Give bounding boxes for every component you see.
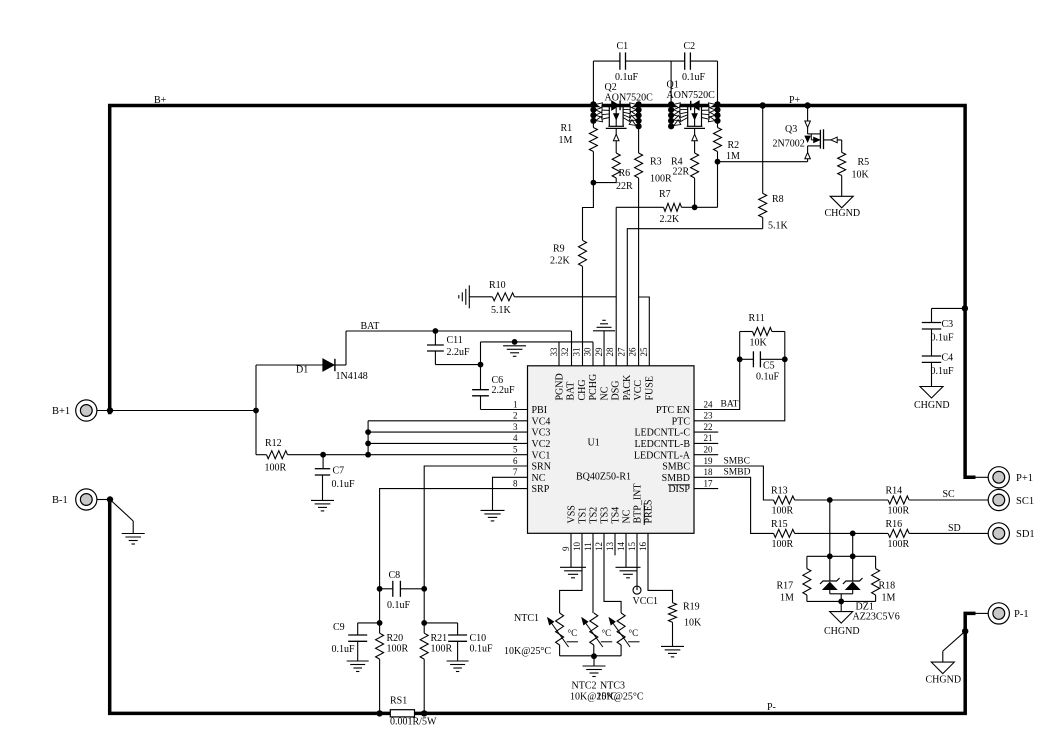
svg-text:°C: °C <box>629 628 639 638</box>
capacitor C8 0.1uF <box>379 581 381 589</box>
svg-text:C10: C10 <box>470 633 487 644</box>
transistor Q2 AON7520C <box>590 101 596 107</box>
capacitor C10 0.1uF <box>424 622 457 624</box>
svg-text:CHG: CHG <box>577 379 588 400</box>
svg-text:TS1: TS1 <box>577 507 588 524</box>
power VCC1 <box>636 533 638 590</box>
svg-text:PRES: PRES <box>643 500 654 524</box>
svg-text:28: 28 <box>605 347 615 357</box>
capacitor C3 <box>922 322 941 324</box>
svg-text:23: 23 <box>704 411 714 421</box>
node C10 tap <box>421 620 427 626</box>
wire pin30 stub <box>592 342 594 366</box>
terminal SD1 <box>988 523 1009 544</box>
svg-text:R13: R13 <box>771 486 788 497</box>
svg-text:5: 5 <box>513 445 518 455</box>
resistor R21 100R <box>420 633 428 659</box>
svg-text:°C: °C <box>568 628 578 638</box>
svg-text:SRP: SRP <box>532 484 550 495</box>
node R4/R7 junction <box>692 204 698 210</box>
svg-text:R1: R1 <box>561 123 573 134</box>
ground at pin14 <box>625 533 627 567</box>
svg-text:R11: R11 <box>749 313 765 324</box>
svg-text:AZ23C5V6: AZ23C5V6 <box>853 612 900 623</box>
svg-text:VCC1: VCC1 <box>633 596 659 607</box>
capacitor C2 <box>684 52 686 69</box>
svg-text:TS3: TS3 <box>599 507 610 524</box>
svg-text:100R: 100R <box>265 463 287 474</box>
resistor R5 10K <box>841 140 843 153</box>
terminal P-1 <box>988 603 1009 624</box>
resistor R15 100R <box>774 529 795 537</box>
svg-text:SMBC: SMBC <box>724 457 750 467</box>
wire R2 down to R7 <box>717 162 719 208</box>
wire pin23 PTC <box>694 359 785 421</box>
svg-text:0.1uF: 0.1uF <box>756 372 780 383</box>
ground at R19 <box>661 645 684 647</box>
resistor R6 22R <box>612 153 620 178</box>
wire SD down to zener <box>852 533 854 556</box>
svg-text:R7: R7 <box>659 189 671 200</box>
node C8 right <box>421 586 427 592</box>
svg-text:10K: 10K <box>684 618 702 629</box>
svg-text:C9: C9 <box>333 622 345 633</box>
svg-text:AON7520C: AON7520C <box>605 93 654 104</box>
wire pin10 TS1 to NTC1 <box>560 533 582 613</box>
resistor RS1 0.001R/5W shunt <box>390 710 414 717</box>
resistor R18 1M <box>875 556 877 568</box>
node SC junction <box>827 497 833 503</box>
resistor R9 2.2K <box>579 240 587 266</box>
svg-text:BAT: BAT <box>361 321 380 332</box>
node RS1 right <box>421 710 427 716</box>
diode D1 1N4148 <box>256 364 323 366</box>
svg-text:VC4: VC4 <box>532 416 551 427</box>
ground at C7 <box>311 499 334 501</box>
svg-text:C4: C4 <box>942 353 954 364</box>
capacitor C11 2.2uF <box>434 331 436 345</box>
svg-text:C2: C2 <box>684 41 696 52</box>
svg-text:1N4148: 1N4148 <box>336 371 368 382</box>
svg-text:Q2: Q2 <box>605 82 617 93</box>
svg-text:12: 12 <box>594 542 604 551</box>
svg-text:29: 29 <box>594 347 604 357</box>
svg-text:DSG: DSG <box>611 380 622 400</box>
svg-text:6: 6 <box>513 456 518 466</box>
node SD junction <box>850 531 856 537</box>
svg-text:VSS: VSS <box>566 505 577 523</box>
overline on PRES pin16 <box>643 503 645 525</box>
svg-text:P+1: P+1 <box>1016 473 1033 484</box>
resistor R13 100R <box>774 496 795 504</box>
svg-text:2N7002: 2N7002 <box>773 139 805 150</box>
svg-text:26: 26 <box>628 347 638 357</box>
svg-text:P+: P+ <box>789 95 801 106</box>
wire R2 to Q3 source <box>718 161 808 163</box>
wire B+1 to D1/R12 <box>253 408 259 414</box>
svg-text:8: 8 <box>513 478 518 488</box>
diode DZ1 zener A <box>829 556 831 581</box>
svg-text:13: 13 <box>605 542 615 552</box>
wire pin33 stub <box>558 342 560 366</box>
svg-text:20: 20 <box>704 445 714 455</box>
node B- bus junction <box>107 496 113 502</box>
ground CHGND at R5 <box>830 196 853 208</box>
svg-text:FUSE: FUSE <box>644 376 655 400</box>
node NTC common <box>591 653 597 659</box>
node zener common <box>838 599 844 605</box>
svg-text:U1: U1 <box>588 438 600 449</box>
svg-text:B+: B+ <box>154 95 167 106</box>
svg-text:0.001R/5W: 0.001R/5W <box>390 717 437 728</box>
svg-text:BTP_INT: BTP_INT <box>632 484 643 524</box>
wire SMBC pin19 <box>694 466 774 500</box>
svg-text:CHGND: CHGND <box>926 675 962 686</box>
wire pin12 TS3 to NTC3 <box>604 533 621 613</box>
wire zener bottom rail <box>807 600 876 602</box>
svg-text:R10: R10 <box>489 280 506 291</box>
resistor R3 100R <box>638 126 640 153</box>
resistor R10 5.1K <box>468 285 470 308</box>
resistor R11 10K <box>739 332 741 360</box>
node RS1 left <box>376 710 382 716</box>
svg-text:BAT: BAT <box>721 400 739 410</box>
transistor Q3 2N7002 <box>807 108 809 134</box>
wire C2 right drop <box>690 60 717 62</box>
terminal B-1 <box>76 489 97 510</box>
svg-text:R21: R21 <box>431 633 448 644</box>
node R2 bottom <box>715 159 721 165</box>
svg-text:22R: 22R <box>616 181 633 192</box>
resistor R20 100R <box>376 633 384 659</box>
wire down left <box>379 589 381 633</box>
terminal P+1 <box>988 467 1009 488</box>
svg-text:°C: °C <box>602 628 612 638</box>
svg-text:AON7520C: AON7520C <box>667 90 716 101</box>
wire NC pin7 to ground <box>493 477 528 510</box>
wire zener top rail <box>807 555 876 557</box>
wire B+ left vertical (thick) <box>108 104 112 414</box>
svg-text:100R: 100R <box>772 539 794 550</box>
svg-text:LEDCNTL-A: LEDCNTL-A <box>634 450 691 461</box>
svg-text:16: 16 <box>638 542 648 552</box>
svg-text:11: 11 <box>583 542 593 551</box>
svg-text:SD: SD <box>948 523 961 534</box>
svg-text:4: 4 <box>513 433 518 443</box>
wire SC down to zener <box>829 500 831 556</box>
svg-text:10K: 10K <box>750 338 768 349</box>
wire junction to R9 <box>583 183 594 241</box>
svg-text:R16: R16 <box>886 519 903 530</box>
svg-text:2.2uF: 2.2uF <box>492 385 516 396</box>
node VC3 junction <box>365 429 371 435</box>
wire pin16 PRES to R19 <box>648 533 673 602</box>
wire mid drop to Q1 <box>670 61 672 103</box>
svg-text:5.1K: 5.1K <box>768 221 789 232</box>
svg-text:33: 33 <box>549 347 559 357</box>
svg-text:17: 17 <box>704 478 714 488</box>
wire BAT net <box>345 331 347 365</box>
wire NTC commons <box>560 655 594 657</box>
svg-text:R20: R20 <box>387 633 404 644</box>
svg-text:0.1uF: 0.1uF <box>470 644 494 655</box>
svg-text:PTC EN: PTC EN <box>656 405 690 416</box>
resistor R17 1M <box>806 556 808 568</box>
wire C3-C4 <box>931 329 933 356</box>
svg-text:Q3: Q3 <box>785 124 797 135</box>
node VC2 junction <box>365 441 371 447</box>
svg-text:TS2: TS2 <box>588 507 599 524</box>
svg-text:SMBD: SMBD <box>724 468 751 478</box>
svg-text:1M: 1M <box>726 151 740 162</box>
capacitor C4 <box>922 355 941 357</box>
svg-text:PBI: PBI <box>532 405 548 416</box>
svg-text:0.1uF: 0.1uF <box>615 72 639 83</box>
capacitor C5 0.1uF <box>740 358 754 360</box>
svg-text:NC: NC <box>621 509 632 523</box>
wire B-1 to bus <box>97 499 110 501</box>
svg-text:PTC: PTC <box>672 416 691 427</box>
svg-text:SC1: SC1 <box>1016 496 1034 507</box>
svg-text:PCHG: PCHG <box>588 374 599 401</box>
svg-text:CHGND: CHGND <box>914 400 950 411</box>
svg-text:0.1uF: 0.1uF <box>682 72 706 83</box>
ground above pin29 NC <box>603 331 605 366</box>
svg-text:100R: 100R <box>650 174 672 185</box>
node C5 left <box>737 356 743 362</box>
svg-text:C1: C1 <box>617 41 629 52</box>
wire B+1 to bus <box>97 410 256 412</box>
svg-text:VC3: VC3 <box>532 428 551 439</box>
svg-text:10: 10 <box>572 542 582 552</box>
svg-text:14: 14 <box>616 542 626 552</box>
svg-text:2: 2 <box>513 411 518 421</box>
svg-text:C8: C8 <box>389 570 401 581</box>
ground at B-1 <box>110 500 133 522</box>
transistor Q1 AON7520C <box>668 101 674 107</box>
node C5 right <box>782 356 788 362</box>
svg-text:30: 30 <box>583 347 593 357</box>
diode DZ1 zener B <box>852 556 854 581</box>
ground CHGND at P-1 <box>962 628 968 634</box>
svg-text:DISP: DISP <box>668 484 690 495</box>
resistor R2 1M <box>717 121 719 128</box>
svg-text:1: 1 <box>513 399 518 409</box>
svg-text:0.1uF: 0.1uF <box>332 479 356 490</box>
svg-text:R8: R8 <box>772 194 784 205</box>
svg-text:2.2K: 2.2K <box>550 256 571 267</box>
op-amp U1 BQ40Z50-R1 body <box>528 366 695 534</box>
svg-text:R9: R9 <box>553 244 565 255</box>
wire VC bundle <box>367 421 369 455</box>
svg-text:Q1: Q1 <box>667 80 679 91</box>
terminal SC1 <box>988 489 1009 510</box>
capacitor C6 2.2uF <box>480 365 482 390</box>
ground at pin9 VSS <box>570 533 572 567</box>
svg-text:R17: R17 <box>777 581 794 592</box>
ground CHGND at DZ1 <box>840 601 842 611</box>
svg-text:1M: 1M <box>559 135 573 146</box>
svg-text:1M: 1M <box>780 593 794 604</box>
svg-text:C7: C7 <box>333 466 345 477</box>
svg-text:LEDCNTL-B: LEDCNTL-B <box>634 439 690 450</box>
svg-text:R14: R14 <box>886 486 903 497</box>
svg-text:19: 19 <box>704 456 714 466</box>
capacitor C9 0.1uF <box>358 622 380 624</box>
svg-text:2.2K: 2.2K <box>660 214 681 225</box>
node C11 tap <box>433 328 439 334</box>
svg-text:32: 32 <box>560 348 570 357</box>
U1 right pin stubs 22 21 20 17 <box>694 431 718 433</box>
node C8 left <box>377 586 383 592</box>
svg-text:0.1uF: 0.1uF <box>931 333 955 344</box>
svg-text:D1: D1 <box>296 365 308 376</box>
svg-text:9: 9 <box>561 546 571 551</box>
svg-text:CHGND: CHGND <box>824 626 860 637</box>
svg-text:R18: R18 <box>879 581 896 592</box>
wire R8 to PACK pin27 <box>627 229 762 366</box>
svg-text:SMBD: SMBD <box>662 473 690 484</box>
wire C4 to ground <box>931 362 933 386</box>
svg-text:15: 15 <box>627 542 637 552</box>
svg-text:1M: 1M <box>882 593 896 604</box>
node C3 tap on P+ bus <box>962 305 968 311</box>
wire down right <box>423 589 425 633</box>
svg-text:C11: C11 <box>447 335 463 346</box>
wire C1 to C2 <box>626 60 685 62</box>
svg-text:22R: 22R <box>673 167 690 178</box>
resistor R12 100R <box>255 411 257 455</box>
svg-text:27: 27 <box>616 347 626 357</box>
svg-text:SC: SC <box>943 489 956 500</box>
svg-text:SD1: SD1 <box>1016 529 1035 540</box>
svg-text:2.2uF: 2.2uF <box>447 347 471 358</box>
svg-text:3: 3 <box>513 422 518 432</box>
resistor R19 10K <box>669 603 677 623</box>
svg-text:10K@25°C: 10K@25°C <box>597 692 644 703</box>
svg-text:NC: NC <box>599 386 610 400</box>
svg-text:SRN: SRN <box>532 462 551 473</box>
overline on DISP pin17 <box>668 484 690 486</box>
svg-text:R12: R12 <box>265 438 282 449</box>
svg-text:100R: 100R <box>387 644 409 655</box>
node R1/R6 junction <box>591 180 597 186</box>
wire to C3 <box>932 307 965 309</box>
node C7 tap <box>320 452 326 458</box>
wire zener anode bracket <box>830 593 853 595</box>
svg-text:R5: R5 <box>858 157 870 168</box>
svg-text:10K: 10K <box>852 170 870 181</box>
svg-text:BQ40Z50-R1: BQ40Z50-R1 <box>576 472 631 483</box>
svg-text:21: 21 <box>704 433 713 443</box>
svg-text:LEDCNTL-C: LEDCNTL-C <box>634 428 690 439</box>
wire SRN pin6 <box>424 466 527 581</box>
svg-text:TS4: TS4 <box>610 507 621 524</box>
svg-text:18: 18 <box>704 467 714 477</box>
svg-text:VC2: VC2 <box>532 439 551 450</box>
capacitor C1 <box>619 52 621 69</box>
svg-text:PACK: PACK <box>622 374 633 401</box>
svg-text:NTC3: NTC3 <box>600 681 625 692</box>
svg-text:0.1uF: 0.1uF <box>931 366 955 377</box>
wire B- / P- bus (thick) <box>110 500 976 714</box>
wire B+ top bus (thick) <box>108 106 976 478</box>
svg-text:100R: 100R <box>888 506 910 517</box>
node C9 tap <box>377 620 383 626</box>
thermistor NTC2 <box>590 613 598 645</box>
thermistor NTC1 <box>556 613 564 645</box>
svg-text:B-1: B-1 <box>52 495 68 506</box>
node VC1 junction <box>365 452 371 458</box>
svg-text:RS1: RS1 <box>390 696 407 707</box>
svg-text:P-: P- <box>767 702 776 713</box>
svg-text:CHGND: CHGND <box>825 208 861 219</box>
svg-text:25: 25 <box>639 347 649 357</box>
svg-text:R15: R15 <box>771 519 788 530</box>
svg-text:5.1K: 5.1K <box>491 305 512 316</box>
svg-text:R19: R19 <box>683 602 700 613</box>
resistor R4 22R <box>691 153 699 178</box>
svg-text:100R: 100R <box>888 539 910 550</box>
svg-text:R3: R3 <box>650 157 662 168</box>
resistor R16 100R <box>888 529 909 537</box>
svg-text:NC: NC <box>532 473 546 484</box>
terminal B+1 <box>76 400 97 421</box>
svg-text:C3: C3 <box>942 319 954 330</box>
svg-text:100R: 100R <box>772 506 794 517</box>
svg-text:100R: 100R <box>431 644 453 655</box>
svg-text:NTC2: NTC2 <box>572 681 597 692</box>
wire pin24 BAT <box>694 359 740 409</box>
svg-text:NTC1: NTC1 <box>514 613 539 624</box>
wire to PGND ground <box>480 342 482 365</box>
svg-text:R2: R2 <box>728 140 740 151</box>
svg-text:VC1: VC1 <box>532 450 551 461</box>
svg-text:R6: R6 <box>619 168 631 179</box>
node B+ bus junction <box>107 407 113 413</box>
svg-text:22: 22 <box>704 422 713 432</box>
svg-text:10K@25°C: 10K@25°C <box>504 646 551 657</box>
wire C1/C2 top <box>592 61 594 103</box>
resistor R8 5.1K <box>762 108 764 194</box>
svg-text:VCC: VCC <box>633 380 644 401</box>
wire SRP pin8 <box>380 489 528 581</box>
resistor R7 2.2K <box>616 206 663 208</box>
svg-text:0.1uF: 0.1uF <box>387 600 411 611</box>
wire FUSE jog pin25 <box>639 297 650 366</box>
node P+ bus Q3 tap <box>804 102 810 108</box>
wire pin11 TS2 to NTC2 <box>592 533 594 613</box>
svg-text:24: 24 <box>704 399 714 409</box>
resistor R1 1M <box>592 108 594 128</box>
node P+ bus R8 tap <box>760 102 766 108</box>
svg-text:31: 31 <box>571 348 581 357</box>
thermistor NTC3 <box>617 613 625 645</box>
ground at NTC <box>593 656 595 666</box>
resistor R14 100R <box>888 496 909 504</box>
node ground tap <box>512 339 518 345</box>
ground CHGND at C4 <box>920 387 943 399</box>
svg-text:P-1: P-1 <box>1014 609 1029 620</box>
svg-text:C5: C5 <box>763 361 775 372</box>
wire R7 left to DSG <box>615 207 617 297</box>
svg-text:BAT: BAT <box>566 382 577 401</box>
wire SMBD pin18 <box>694 477 774 533</box>
ground at PGND <box>503 345 526 347</box>
capacitor C7 0.1uF <box>322 455 324 469</box>
svg-text:0.1uF: 0.1uF <box>332 644 356 655</box>
svg-text:PGND: PGND <box>554 373 565 400</box>
